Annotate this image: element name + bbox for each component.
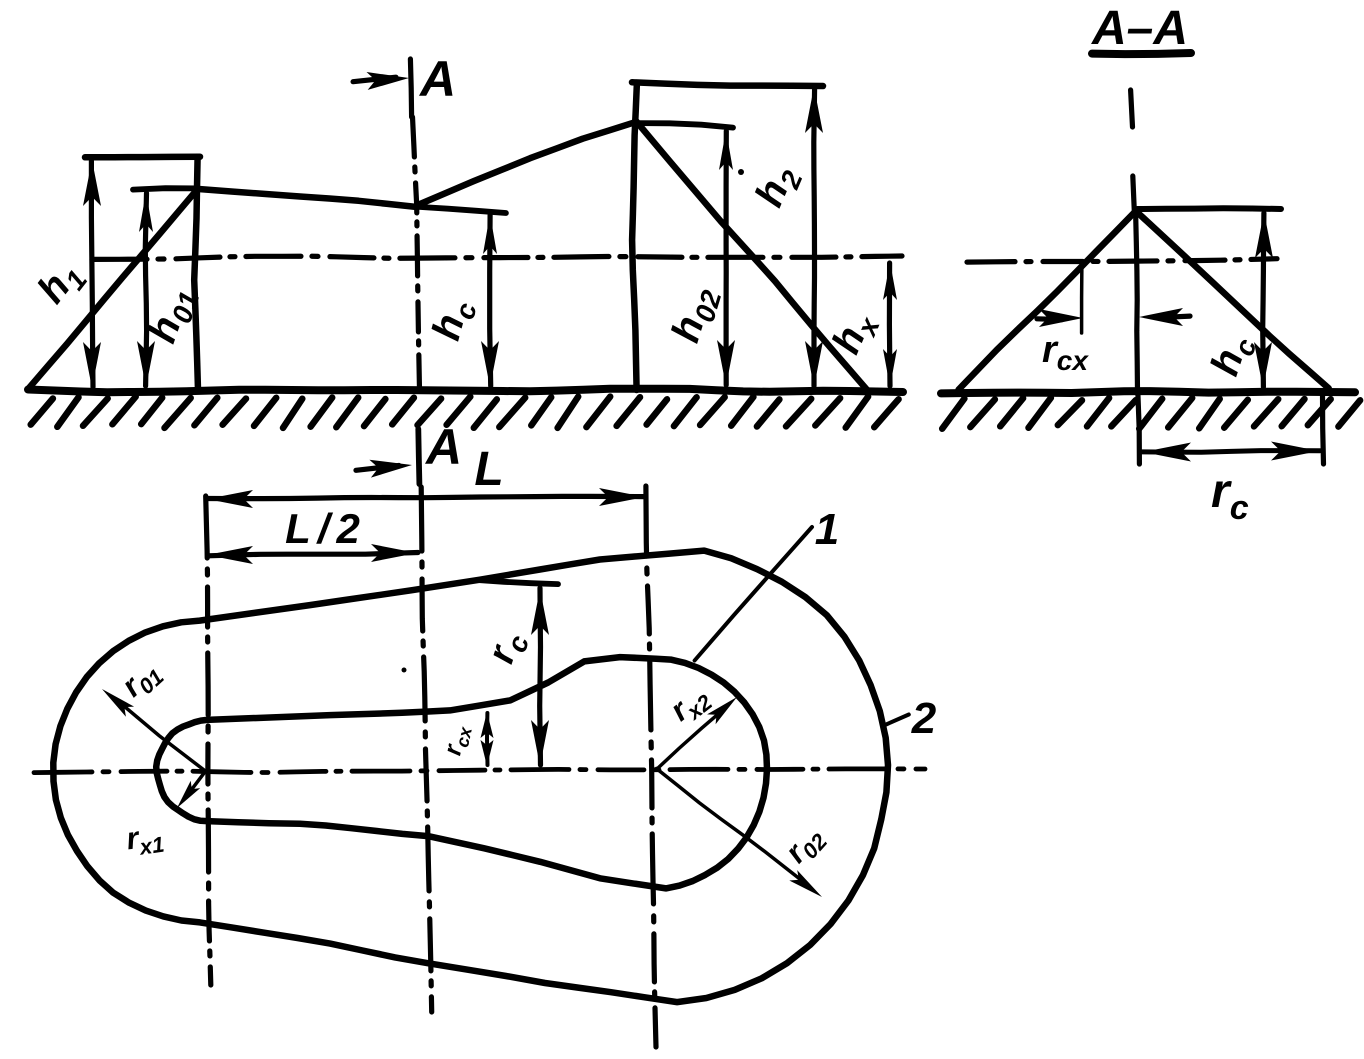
mound 1 left slope xyxy=(29,189,197,387)
profile line peak1 to saddle xyxy=(197,189,417,207)
ground hatching (section) xyxy=(942,398,1360,429)
dimension hc line (section) xyxy=(1263,213,1264,387)
svg-text:h02: h02 xyxy=(663,281,727,349)
svg-text:A: A xyxy=(424,419,462,475)
svg-text:h2: h2 xyxy=(747,159,809,216)
ground line (section) xyxy=(941,391,1355,393)
radius arrow rx1 xyxy=(186,772,205,797)
dimension rcx line (plan) xyxy=(485,713,490,765)
svg-text:hc: hc xyxy=(424,294,483,346)
svg-text:L: L xyxy=(474,443,503,496)
dimension h1 line xyxy=(91,161,93,387)
rc extension line right xyxy=(1323,393,1324,464)
svg-text:rx1: rx1 xyxy=(124,817,166,862)
dimension h2 line xyxy=(811,88,817,386)
plan vertical centerline through left center xyxy=(206,496,211,985)
mound 2 left vertical edge xyxy=(632,83,637,390)
svg-text:1: 1 xyxy=(815,505,839,554)
hc cap line xyxy=(419,207,506,213)
svg-text:r01: r01 xyxy=(115,653,169,707)
mound 2 falling slope xyxy=(636,121,868,390)
leader line to label 2 xyxy=(884,715,909,726)
svg-text:A–A: A–A xyxy=(1091,2,1188,55)
dimension L line xyxy=(208,496,644,498)
svg-text:2: 2 xyxy=(911,694,937,743)
h02 cap line xyxy=(638,123,733,128)
ink speck xyxy=(402,668,407,673)
ground hatching (elevation) xyxy=(31,397,899,428)
cone right slope xyxy=(1136,211,1329,388)
mound 1 top cap line xyxy=(85,153,200,160)
centerline (elevation, dash-dot) xyxy=(92,256,902,259)
dimension rc line (below section) xyxy=(1142,451,1320,453)
svg-text:r02: r02 xyxy=(778,818,833,872)
cone top cap line xyxy=(1137,205,1281,212)
svg-text:A: A xyxy=(418,51,456,107)
svg-text:hc: hc xyxy=(1203,329,1263,383)
dimension h01 line xyxy=(145,193,146,386)
svg-text:L/2: L/2 xyxy=(285,505,367,552)
dimension hx line xyxy=(887,263,893,386)
cone left slope xyxy=(959,212,1135,390)
mound 2 top cap line xyxy=(632,82,823,86)
h01 cap line xyxy=(133,188,198,189)
inner contour 1 (plan teardrop) xyxy=(156,657,767,888)
rising slope saddle to peak2 xyxy=(417,122,636,205)
rc cap line (plan) xyxy=(477,580,558,584)
mound 1 right vertical edge xyxy=(194,157,198,390)
section arrow A (bottom) xyxy=(356,466,399,471)
svg-text:rc: rc xyxy=(480,626,535,670)
dimension L/2 line xyxy=(208,553,418,556)
dimension rc line (plan) xyxy=(537,588,543,765)
outer contour 2 (plan teardrop) xyxy=(53,551,888,1003)
plan vertical centerline through right center xyxy=(646,486,656,1047)
section cut bar (bottom) xyxy=(418,429,419,484)
centerline horizontal (section, dash-dot) xyxy=(967,259,1277,262)
svg-text:rcx: rcx xyxy=(1042,329,1089,376)
ink speck xyxy=(738,169,744,175)
section centerline vertical xyxy=(1131,90,1133,127)
section arrow A (top) xyxy=(353,77,396,82)
plan horizontal centerline (dash-dot) xyxy=(34,769,925,773)
radius arrow r01 xyxy=(115,699,204,771)
title underline xyxy=(1092,53,1191,54)
radius arrow rx2 xyxy=(656,708,725,769)
radius arrow r02 xyxy=(656,769,807,886)
dimension rcx arrows (section) xyxy=(1037,316,1062,322)
svg-text:rc: rc xyxy=(1211,465,1249,527)
ground line (elevation view) xyxy=(28,389,903,393)
dimension hc line xyxy=(490,215,491,386)
svg-text:rcx: rcx xyxy=(438,722,476,759)
svg-text:h1: h1 xyxy=(29,253,93,315)
extension line at slope xyxy=(1080,263,1084,333)
section line A-A (vertical, top view) xyxy=(410,59,411,117)
section line A-A continuation (plan) xyxy=(421,487,432,1012)
leader line to label 1 xyxy=(695,527,812,661)
dimension h02 line xyxy=(723,131,728,385)
